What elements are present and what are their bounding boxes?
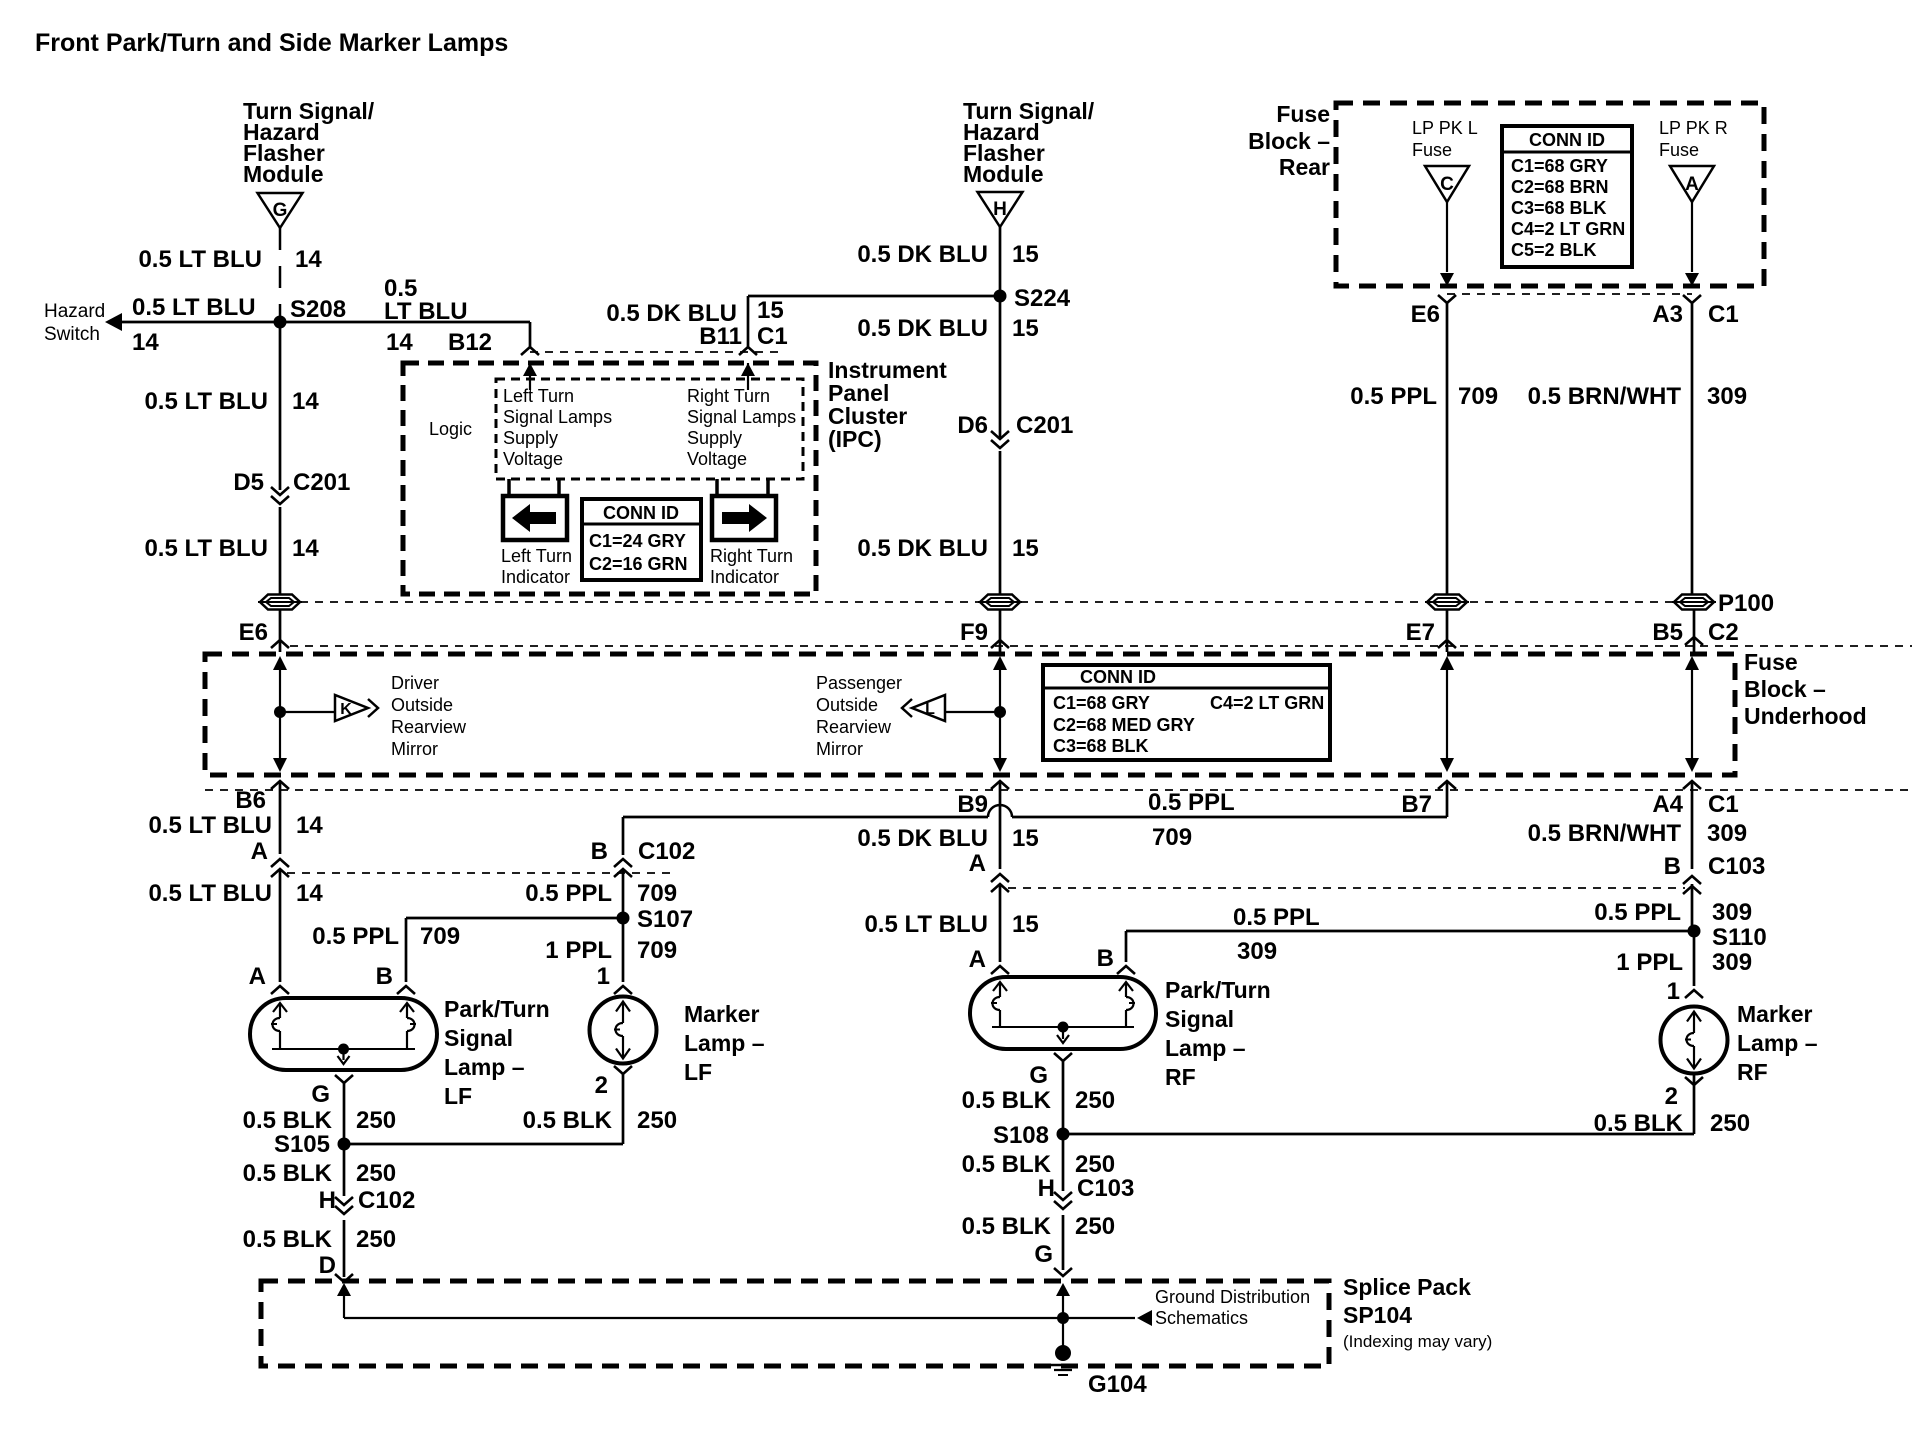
svg-text:0.5 BRN/WHT: 0.5 BRN/WHT xyxy=(1528,383,1682,410)
label B C103 xyxy=(1664,853,1766,880)
wire to K triangle xyxy=(280,711,336,713)
svg-text:B9: B9 xyxy=(957,791,988,818)
svg-text:C1=24 GRY: C1=24 GRY xyxy=(589,531,686,551)
module connector G triangle xyxy=(258,193,303,228)
park/turn signal lamp LF xyxy=(250,998,437,1070)
svg-text:250: 250 xyxy=(356,1160,396,1187)
svg-text:C2: C2 xyxy=(1708,619,1739,646)
svg-text:Park/Turn: Park/Turn xyxy=(1165,977,1271,1003)
svg-text:A4: A4 xyxy=(1652,791,1683,818)
wire E6 to E7 grommet xyxy=(1446,303,1449,595)
svg-text:709: 709 xyxy=(637,937,677,964)
mirror junction K xyxy=(274,706,286,718)
svg-text:S110: S110 xyxy=(1712,924,1767,951)
label Park/Turn Signal Lamp - RF xyxy=(1165,977,1271,1090)
label S224 xyxy=(1014,285,1071,312)
lamp B pin chevron xyxy=(397,986,415,994)
svg-text:Outside: Outside xyxy=(816,695,878,715)
label 0.5 BLK 250 (S108-H) xyxy=(962,1151,1115,1178)
svg-text:0.5 DK BLU: 0.5 DK BLU xyxy=(857,315,988,342)
svg-text:LF: LF xyxy=(684,1059,712,1085)
grommet at E6 column xyxy=(258,595,302,610)
wire S110 branch to lamp B (right) xyxy=(1126,931,1694,962)
connector A inline (right, double chevron) xyxy=(991,874,1009,892)
svg-text:Module: Module xyxy=(243,161,324,187)
svg-text:0.5 BRN/WHT: 0.5 BRN/WHT xyxy=(1528,820,1682,847)
svg-text:0.5 LT BLU: 0.5 LT BLU xyxy=(138,246,262,273)
label 2 (LF) xyxy=(595,1072,608,1099)
connector line below underhood (thin dashed) xyxy=(205,789,1912,791)
wire S208 to D5 xyxy=(279,322,282,490)
label 0.5 BLK 250 (marker RF gnd) xyxy=(1594,1110,1750,1137)
svg-text:(IPC): (IPC) xyxy=(828,426,882,452)
conn id box (underhood) xyxy=(1043,665,1330,760)
svg-text:250: 250 xyxy=(1075,1151,1115,1178)
svg-text:0.5 DK BLU: 0.5 DK BLU xyxy=(857,241,988,268)
wire fuse A to box edge xyxy=(1685,202,1699,286)
connector line C102 left (thin dashed) xyxy=(287,872,677,874)
splice pack G arrow in xyxy=(1056,1283,1070,1318)
connector pin E7 chevron xyxy=(1438,640,1456,648)
connector pin E6 (rear) chevron xyxy=(1438,295,1456,303)
svg-text:14: 14 xyxy=(296,812,323,839)
label A (lamp A pin) xyxy=(249,963,266,990)
svg-text:Logic: Logic xyxy=(429,419,472,439)
svg-text:RF: RF xyxy=(1737,1059,1768,1085)
svg-text:Lamp –: Lamp – xyxy=(444,1054,525,1080)
conn id rows (rear) xyxy=(1511,156,1625,260)
svg-text:C1: C1 xyxy=(1708,301,1739,328)
underhood E6 arrow in xyxy=(273,656,287,712)
svg-text:0.5 LT BLU: 0.5 LT BLU xyxy=(132,294,256,321)
svg-text:C4=2 LT GRN: C4=2 LT GRN xyxy=(1511,219,1625,239)
svg-text:A: A xyxy=(1685,174,1699,195)
svg-text:S224: S224 xyxy=(1014,285,1071,312)
label Park/Turn Signal Lamp - LF xyxy=(444,996,550,1109)
svg-text:709: 709 xyxy=(1458,383,1498,410)
svg-text:C3=68 BLK: C3=68 BLK xyxy=(1053,736,1149,756)
label B C102 (top) xyxy=(591,838,696,865)
label 0.5 LT BLU 14 (G wire) xyxy=(138,246,322,273)
lamp RF G pin chevron xyxy=(1054,1053,1072,1061)
svg-text:15: 15 xyxy=(1012,315,1039,342)
svg-text:Fuse: Fuse xyxy=(1412,140,1452,160)
svg-text:0.5 BLK: 0.5 BLK xyxy=(962,1087,1052,1114)
conn id rows (underhood) xyxy=(1053,693,1324,756)
svg-text:709: 709 xyxy=(637,880,677,907)
connector pin A4 chevron xyxy=(1683,781,1701,789)
label Logic xyxy=(429,419,472,439)
label H C102 xyxy=(319,1187,416,1214)
svg-text:LF: LF xyxy=(444,1083,472,1109)
wire H to splice pack D xyxy=(343,1220,346,1277)
svg-text:Underhood: Underhood xyxy=(1744,703,1867,729)
left indicator stubs xyxy=(509,479,559,496)
svg-text:250: 250 xyxy=(1075,1213,1115,1240)
svg-text:K: K xyxy=(340,701,352,718)
right turn indicator box xyxy=(712,496,776,540)
label 0.5 BLK 250 (G wire) xyxy=(243,1107,396,1134)
fuse LP PK L triangle C xyxy=(1425,166,1469,202)
label 0.5 PPL 309 (branch right) xyxy=(1233,904,1320,965)
svg-text:15: 15 xyxy=(1012,911,1039,938)
splice S107 xyxy=(617,912,630,925)
svg-text:Mirror: Mirror xyxy=(816,739,863,759)
label 0.5 DK BLU (B11 wire) xyxy=(606,300,737,327)
wire F9 grommet segment xyxy=(999,610,1002,652)
svg-text:H: H xyxy=(993,199,1007,220)
connector C201 pin D6 (double chevron) xyxy=(991,431,1009,448)
label B5 C2 xyxy=(1652,619,1738,646)
svg-text:14: 14 xyxy=(295,246,322,273)
svg-text:0.5 BLK: 0.5 BLK xyxy=(523,1107,613,1134)
svg-text:C201: C201 xyxy=(1016,412,1073,439)
label E6 (rear) xyxy=(1411,301,1440,328)
svg-text:Indicator: Indicator xyxy=(501,567,570,587)
svg-text:Fuse: Fuse xyxy=(1276,101,1330,127)
svg-text:SP104: SP104 xyxy=(1343,1302,1412,1328)
splice S208 xyxy=(274,316,287,329)
svg-text:250: 250 xyxy=(356,1107,396,1134)
label 0.5 DK BLU 15 (IPC-F9) xyxy=(857,535,1038,562)
label 0.5 BLK 250 (RF G wire) xyxy=(962,1087,1115,1114)
svg-text:0.5 BLK: 0.5 BLK xyxy=(962,1151,1052,1178)
marker lamp LF xyxy=(590,997,657,1064)
label Ground Distribution Schematics xyxy=(1155,1287,1310,1328)
label 14 (below wire) xyxy=(132,329,159,356)
label S105 xyxy=(274,1131,330,1158)
label Hazard Switch xyxy=(44,301,105,345)
svg-text:B12: B12 xyxy=(448,329,492,356)
svg-text:709: 709 xyxy=(420,923,460,950)
svg-text:C102: C102 xyxy=(358,1187,415,1214)
label S208 xyxy=(290,296,346,323)
lamp A pin chevron (right) xyxy=(991,966,1009,974)
connector C102 pin H (double chevron) xyxy=(335,1197,353,1214)
left turn indicator box xyxy=(503,496,567,540)
svg-text:2: 2 xyxy=(1665,1083,1678,1110)
svg-text:0.5 PPL: 0.5 PPL xyxy=(1594,899,1681,926)
svg-text:E6: E6 xyxy=(239,619,268,646)
svg-text:Voltage: Voltage xyxy=(503,449,563,469)
connector pin B5 chevron xyxy=(1685,637,1703,645)
svg-text:B5: B5 xyxy=(1652,619,1683,646)
logic sub-box (dashed) xyxy=(496,379,803,479)
label E6 (left) xyxy=(239,619,268,646)
label A3 C1 xyxy=(1652,301,1738,328)
svg-text:0.5 LT BLU: 0.5 LT BLU xyxy=(144,535,268,562)
svg-text:B: B xyxy=(1664,853,1681,880)
svg-text:Voltage: Voltage xyxy=(687,449,747,469)
conn id rows (IPC) xyxy=(589,531,688,574)
connector pin B9 chevron xyxy=(991,781,1009,789)
svg-text:Ground Distribution: Ground Distribution xyxy=(1155,1287,1310,1307)
marker LF pin 2 chevron xyxy=(614,1066,632,1074)
harness pass-through dashed line xyxy=(300,601,1674,603)
label 0.5 LT BLU 14 (B6) xyxy=(148,812,323,839)
label 0.5 PPL 709 (C102-S107) xyxy=(525,880,677,907)
label 0.5 LT BLU 14 (lamp A wire) xyxy=(148,880,323,907)
splice pack G pin chevron xyxy=(1054,1268,1072,1276)
label 0.5 DK BLU 15 (S224-D6) xyxy=(857,315,1038,342)
svg-text:B7: B7 xyxy=(1401,791,1432,818)
label Right Turn Indicator xyxy=(710,546,793,587)
svg-text:15: 15 xyxy=(1012,535,1039,562)
svg-text:Lamp –: Lamp – xyxy=(1165,1035,1246,1061)
svg-text:0.5 PPL: 0.5 PPL xyxy=(1233,904,1320,931)
svg-text:CONN ID: CONN ID xyxy=(603,503,679,523)
connector pin F9 chevron xyxy=(991,640,1009,648)
wire D5 to E6 grommet xyxy=(279,507,282,595)
svg-text:C2=68 BRN: C2=68 BRN xyxy=(1511,177,1609,197)
svg-text:Splice Pack: Splice Pack xyxy=(1343,1274,1471,1300)
svg-text:709: 709 xyxy=(1152,824,1192,851)
title xyxy=(35,29,508,57)
svg-text:G: G xyxy=(311,1081,330,1108)
label 0.5 DK BLU 15 (H wire) xyxy=(857,241,1038,268)
splice pack D arrow in xyxy=(337,1283,351,1318)
conn id title (rear) xyxy=(1529,130,1605,150)
svg-text:0.5 LT BLU: 0.5 LT BLU xyxy=(148,812,272,839)
svg-text:Left Turn: Left Turn xyxy=(503,386,574,406)
label Driver Outside Rearview Mirror xyxy=(391,673,467,759)
svg-text:G: G xyxy=(273,200,288,221)
arrow to hazard switch xyxy=(105,313,122,331)
svg-text:Front Park/Turn and Side Marke: Front Park/Turn and Side Marker Lamps xyxy=(35,29,508,57)
label G (RF) xyxy=(1029,1062,1048,1089)
label 0.5 LT BLU 14 (S208-D5) xyxy=(144,388,319,415)
svg-text:LT BLU: LT BLU xyxy=(384,298,468,325)
svg-text:1: 1 xyxy=(597,963,610,990)
wire S107 branch to lamp B xyxy=(406,918,623,982)
label A (right above) xyxy=(969,850,986,877)
wire S105 to C102 H xyxy=(343,1144,346,1196)
svg-text:Signal: Signal xyxy=(1165,1006,1234,1032)
svg-text:Park/Turn: Park/Turn xyxy=(444,996,550,1022)
label D5 C201 xyxy=(233,469,350,496)
connector pin E6 chevron (left) xyxy=(271,640,289,648)
underhood F9-B9 wire xyxy=(993,712,1007,772)
svg-text:14: 14 xyxy=(296,880,323,907)
splice S105 xyxy=(338,1138,351,1151)
svg-text:S105: S105 xyxy=(274,1131,330,1158)
svg-text:14: 14 xyxy=(292,388,319,415)
svg-text:A3: A3 xyxy=(1652,301,1683,328)
module Turn Signal/Hazard Flasher Module (middle) label xyxy=(963,98,1095,187)
conn id box (rear) xyxy=(1502,126,1632,267)
svg-text:309: 309 xyxy=(1237,938,1277,965)
svg-text:RF: RF xyxy=(1165,1064,1196,1090)
underhood E6-B6 wire xyxy=(273,712,287,772)
svg-text:Driver: Driver xyxy=(391,673,439,693)
svg-text:0.5 LT BLU: 0.5 LT BLU xyxy=(148,880,272,907)
right indicator stubs xyxy=(717,479,768,496)
label 1 (marker pin) xyxy=(597,963,610,990)
left indicator arrow icon xyxy=(512,504,556,532)
wire S108 to C103 H xyxy=(1062,1134,1065,1191)
label 0.5 BLK 250 (marker LF gnd) xyxy=(523,1107,677,1134)
wire A to lamp A xyxy=(279,869,282,982)
svg-text:E6: E6 xyxy=(1411,301,1440,328)
label LP PK R Fuse xyxy=(1659,118,1728,160)
svg-text:250: 250 xyxy=(1075,1087,1115,1114)
svg-text:C103: C103 xyxy=(1077,1175,1134,1202)
svg-text:1 PPL: 1 PPL xyxy=(545,937,612,964)
wire H to splice pack G xyxy=(1062,1215,1065,1270)
svg-text:C3=68 BLK: C3=68 BLK xyxy=(1511,198,1607,218)
svg-text:Rearview: Rearview xyxy=(816,717,892,737)
wire S224 to B11 xyxy=(748,296,1000,347)
label 0.5 PPL 709 xyxy=(1350,383,1498,410)
svg-text:E7: E7 xyxy=(1406,619,1435,646)
ground distribution arrow xyxy=(1137,1310,1152,1326)
svg-text:G: G xyxy=(1029,1062,1048,1089)
svg-text:B: B xyxy=(376,963,393,990)
wire G to S208 (dashed) xyxy=(279,228,282,316)
svg-text:0.5 BLK: 0.5 BLK xyxy=(1594,1110,1684,1137)
splice S110 xyxy=(1688,925,1701,938)
wire S208 to B12 xyxy=(280,322,530,347)
lamp LF G pin chevron xyxy=(335,1075,353,1083)
mirror triangle L xyxy=(902,695,945,721)
svg-text:0.5 BLK: 0.5 BLK xyxy=(243,1107,333,1134)
svg-text:CONN ID: CONN ID xyxy=(1529,130,1605,150)
mirror triangle K xyxy=(335,695,378,721)
label 0.5 BLK 250 (H-D) xyxy=(243,1226,396,1253)
label G (LF) xyxy=(311,1081,330,1108)
svg-text:0.5 DK BLU: 0.5 DK BLU xyxy=(857,535,988,562)
park/turn signal lamp RF xyxy=(970,977,1156,1049)
svg-text:0.5 DK BLU: 0.5 DK BLU xyxy=(857,825,988,852)
label Left Turn Indicator xyxy=(501,546,572,587)
svg-text:B11: B11 xyxy=(699,323,742,350)
label 0.5 LT BLU (left of S208) xyxy=(132,294,256,321)
svg-text:Supply: Supply xyxy=(687,428,742,448)
wire fuse C to box edge xyxy=(1440,202,1454,286)
label Marker Lamp - LF xyxy=(684,1001,765,1085)
wire H to S224 xyxy=(999,227,1002,296)
svg-text:C1=68 GRY: C1=68 GRY xyxy=(1511,156,1608,176)
label Left Turn Signal Lamps Supply Voltage xyxy=(503,386,612,469)
svg-text:0.5 BLK: 0.5 BLK xyxy=(243,1226,333,1253)
svg-text:C1=68 GRY: C1=68 GRY xyxy=(1053,693,1150,713)
label H C103 xyxy=(1038,1175,1135,1202)
marker 1 pin chevron (right) xyxy=(1685,990,1703,998)
svg-text:Module: Module xyxy=(963,161,1044,187)
label 0.5 PPL 309 (C103-S110) xyxy=(1594,899,1752,926)
mirror junction L xyxy=(994,706,1006,718)
label 0.5 BRN/WHT 309 xyxy=(1528,383,1747,410)
svg-text:309: 309 xyxy=(1707,820,1747,847)
svg-text:Marker: Marker xyxy=(684,1001,759,1027)
svg-text:15: 15 xyxy=(1012,825,1039,852)
connector pin B12 chevron xyxy=(521,347,539,355)
fuse block rear dashed box xyxy=(1336,103,1764,286)
svg-text:15: 15 xyxy=(1012,241,1039,268)
svg-text:LP PK R: LP PK R xyxy=(1659,118,1728,138)
label A (above connector) xyxy=(251,838,268,865)
wire E7 grommet segment xyxy=(1446,610,1449,652)
svg-text:A: A xyxy=(969,850,986,877)
svg-text:A: A xyxy=(249,963,266,990)
svg-text:D5: D5 xyxy=(233,469,264,496)
label A (right lamp pin) xyxy=(969,946,986,973)
svg-text:14: 14 xyxy=(292,535,319,562)
svg-text:0.5 PPL: 0.5 PPL xyxy=(525,880,612,907)
svg-text:Marker: Marker xyxy=(1737,1001,1812,1027)
marker 1 pin chevron xyxy=(614,986,632,994)
conn id box (IPC) xyxy=(582,499,701,580)
label LP PK L Fuse xyxy=(1412,118,1478,160)
wire C102 to S107 xyxy=(622,869,625,915)
wire G to S108 xyxy=(1062,1061,1065,1131)
lamp B pin chevron (right) xyxy=(1117,966,1135,974)
svg-text:A: A xyxy=(251,838,268,865)
connector A inline (left, double chevron) xyxy=(271,859,289,877)
svg-text:Rear: Rear xyxy=(1279,154,1330,180)
label G104 xyxy=(1088,1371,1147,1398)
wire C103 to S110 xyxy=(1691,884,1694,928)
label B11 xyxy=(699,323,742,350)
svg-text:S208: S208 xyxy=(290,296,346,323)
svg-text:Lamp –: Lamp – xyxy=(684,1030,765,1056)
label 15 C1 (B11 wire) xyxy=(757,297,788,350)
svg-text:H: H xyxy=(1038,1175,1055,1202)
splice pack junction xyxy=(1057,1312,1069,1324)
label Fuse Block - Underhood xyxy=(1744,649,1867,729)
label B9 xyxy=(957,791,988,818)
connector C201 pin D5 (double chevron) xyxy=(271,487,289,504)
underhood B5-A4 arrow xyxy=(1685,656,1699,772)
svg-text:C1: C1 xyxy=(1708,791,1739,818)
wire G to S105 xyxy=(343,1083,346,1141)
svg-text:0.5 PPL: 0.5 PPL xyxy=(312,923,399,950)
svg-text:0.5 BLK: 0.5 BLK xyxy=(243,1160,333,1187)
label E7 xyxy=(1406,619,1435,646)
svg-text:0.5 LT BLU: 0.5 LT BLU xyxy=(864,911,988,938)
connector C102 pin B (double chevron) xyxy=(614,859,632,877)
splice pack bus wire xyxy=(344,1317,1135,1319)
svg-text:1: 1 xyxy=(1667,978,1680,1005)
svg-text:14: 14 xyxy=(132,329,159,356)
svg-text:309: 309 xyxy=(1712,899,1752,926)
fuse LP PK R triangle A xyxy=(1670,166,1714,202)
svg-text:C: C xyxy=(1440,174,1454,195)
svg-text:0.5 PPL: 0.5 PPL xyxy=(1148,789,1235,816)
svg-text:Hazard: Hazard xyxy=(44,301,105,322)
svg-text:2: 2 xyxy=(595,1072,608,1099)
label 0.5 PPL 709 (branch) xyxy=(312,923,460,950)
svg-text:Signal Lamps: Signal Lamps xyxy=(503,407,612,427)
grommet at E7 column xyxy=(1425,595,1469,610)
connector pin B6 chevron xyxy=(271,781,289,789)
wire A4 to B C103 xyxy=(1691,781,1694,869)
svg-text:F9: F9 xyxy=(960,619,988,646)
svg-text:Fuse: Fuse xyxy=(1744,649,1798,675)
svg-text:C2=16 GRN: C2=16 GRN xyxy=(589,554,688,574)
svg-text:14: 14 xyxy=(386,329,413,356)
wire S107 to marker 1 xyxy=(622,918,625,982)
label B12 xyxy=(448,329,492,356)
wire B5 grommet segment xyxy=(1693,610,1696,652)
fuse block underhood dashed box xyxy=(205,654,1735,775)
connector pin B11 chevron xyxy=(739,347,757,355)
svg-text:0.5 PPL: 0.5 PPL xyxy=(1350,383,1437,410)
wire S110 to marker 1 (right) xyxy=(1693,931,1696,986)
label 0.5 DK BLU 15 (B9) xyxy=(857,825,1038,852)
svg-text:Passenger: Passenger xyxy=(816,673,902,693)
svg-text:D6: D6 xyxy=(957,412,988,439)
